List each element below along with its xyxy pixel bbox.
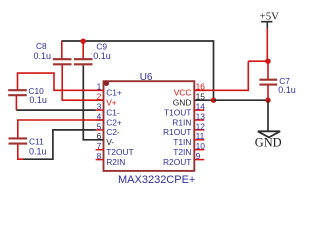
wire C8 top lead [61,41,63,59]
pin 4 C2+ [96,119,104,121]
svg-text:11: 11 [196,131,205,141]
pin 10 T2IN [194,149,204,151]
pin 3 C1- [96,109,104,111]
svg-text:12: 12 [196,121,206,131]
svg-text:U6: U6 [140,72,153,83]
pin 15 GND [194,99,204,101]
pin 11 T1IN [194,139,204,141]
svg-text:T2IN: T2IN [173,147,191,157]
power +5V [261,21,272,23]
node junction at C9 top [81,39,86,44]
svg-text:R2IN: R2IN [106,157,125,167]
svg-text:R1OUT: R1OUT [163,127,191,137]
svg-text:T2OUT: T2OUT [106,147,133,157]
capacitor C7 [259,79,277,81]
svg-text:15: 15 [196,92,206,102]
svg-text:0.1u: 0.1u [93,51,111,61]
svg-text:+5V: +5V [260,11,279,23]
wire C10 bottom lead [15,95,17,110]
wire C11 bottom to pin5 [23,130,96,159]
svg-text:R1IN: R1IN [172,117,191,127]
wire corner to pin16 VCC [194,61,248,90]
pin 5 C2- [96,129,104,131]
wire C11 top to pin4 [18,120,104,138]
pin 7 T2OUT [96,149,104,151]
wire +5V down [266,28,268,61]
svg-text:C1-: C1- [106,107,120,117]
svg-text:4: 4 [97,111,102,121]
svg-text:0.1u: 0.1u [278,85,296,95]
node +5V junction [265,59,270,64]
wire GND stem [267,100,269,131]
pin 16 VCC [194,89,204,91]
capacitor C9 [74,58,93,60]
wire C10 bottom to pin3 [16,109,96,111]
pin 2 V+ [96,99,104,101]
svg-text:9: 9 [196,151,201,161]
svg-text:V+: V+ [106,98,117,108]
wire GND top [61,40,213,42]
svg-text:0.1u: 0.1u [34,51,52,61]
svg-text:T1IN: T1IN [173,137,191,147]
wire C8 bottom to pin2 [62,64,103,100]
svg-text:GND: GND [255,135,282,149]
svg-text:16: 16 [196,82,206,92]
wire C11 bottom corner [18,144,24,160]
capacitor C11 [9,137,28,139]
svg-text:0.1u: 0.1u [29,95,47,105]
node at U6 pin 1 corner [104,81,109,86]
pin 12 R1OUT [194,129,204,131]
pin 13 R1IN [194,119,204,121]
wire C10 top to pin1 [18,73,104,90]
capacitor C8 [53,58,72,60]
svg-text:GND: GND [173,98,192,108]
wire C9 top lead [82,41,84,59]
wire junction to corner [248,60,268,62]
svg-text:1: 1 [97,82,102,92]
svg-text:V-: V- [106,137,114,147]
svg-text:R2OUT: R2OUT [163,157,191,167]
svg-text:14: 14 [196,102,206,112]
pin 14 T1OUT [194,109,204,111]
svg-text:7: 7 [97,141,102,151]
pin 8 R2IN [96,159,104,161]
ground GND [258,131,280,137]
pin 9 R2OUT [194,159,204,161]
svg-text:C2+: C2+ [106,117,122,127]
wire pin15 to junction [194,99,213,101]
svg-text:MAX3232CPE+: MAX3232CPE+ [118,174,195,186]
wire junction to C7 top [267,61,269,79]
svg-text:6: 6 [97,131,102,141]
svg-text:3: 3 [97,102,102,112]
svg-text:T1OUT: T1OUT [164,107,191,117]
svg-text:C8: C8 [36,41,47,51]
svg-text:2: 2 [97,92,102,102]
svg-text:C2-: C2- [106,127,120,137]
svg-text:8: 8 [97,151,102,161]
wire GND right vertical [213,40,215,100]
pin 6 V- [96,139,104,141]
IC U6 body [104,81,195,171]
pin 1 C1+ [96,89,104,91]
svg-text:0.1u: 0.1u [29,147,47,157]
wire GND junction to C7 [214,99,269,101]
wire C9 bottom to pin6 [83,65,103,139]
capacitor C10 [8,89,27,91]
wire C7 bottom lead [267,85,269,101]
node GND junction B [265,98,270,103]
svg-text:10: 10 [196,141,206,151]
svg-text:C1+: C1+ [106,88,122,98]
svg-text:5: 5 [97,121,102,131]
node GND junction A [211,98,216,103]
svg-text:VCC: VCC [174,88,192,98]
svg-text:13: 13 [196,111,206,121]
svg-text:C11: C11 [29,136,44,146]
svg-text:C9: C9 [96,41,107,51]
